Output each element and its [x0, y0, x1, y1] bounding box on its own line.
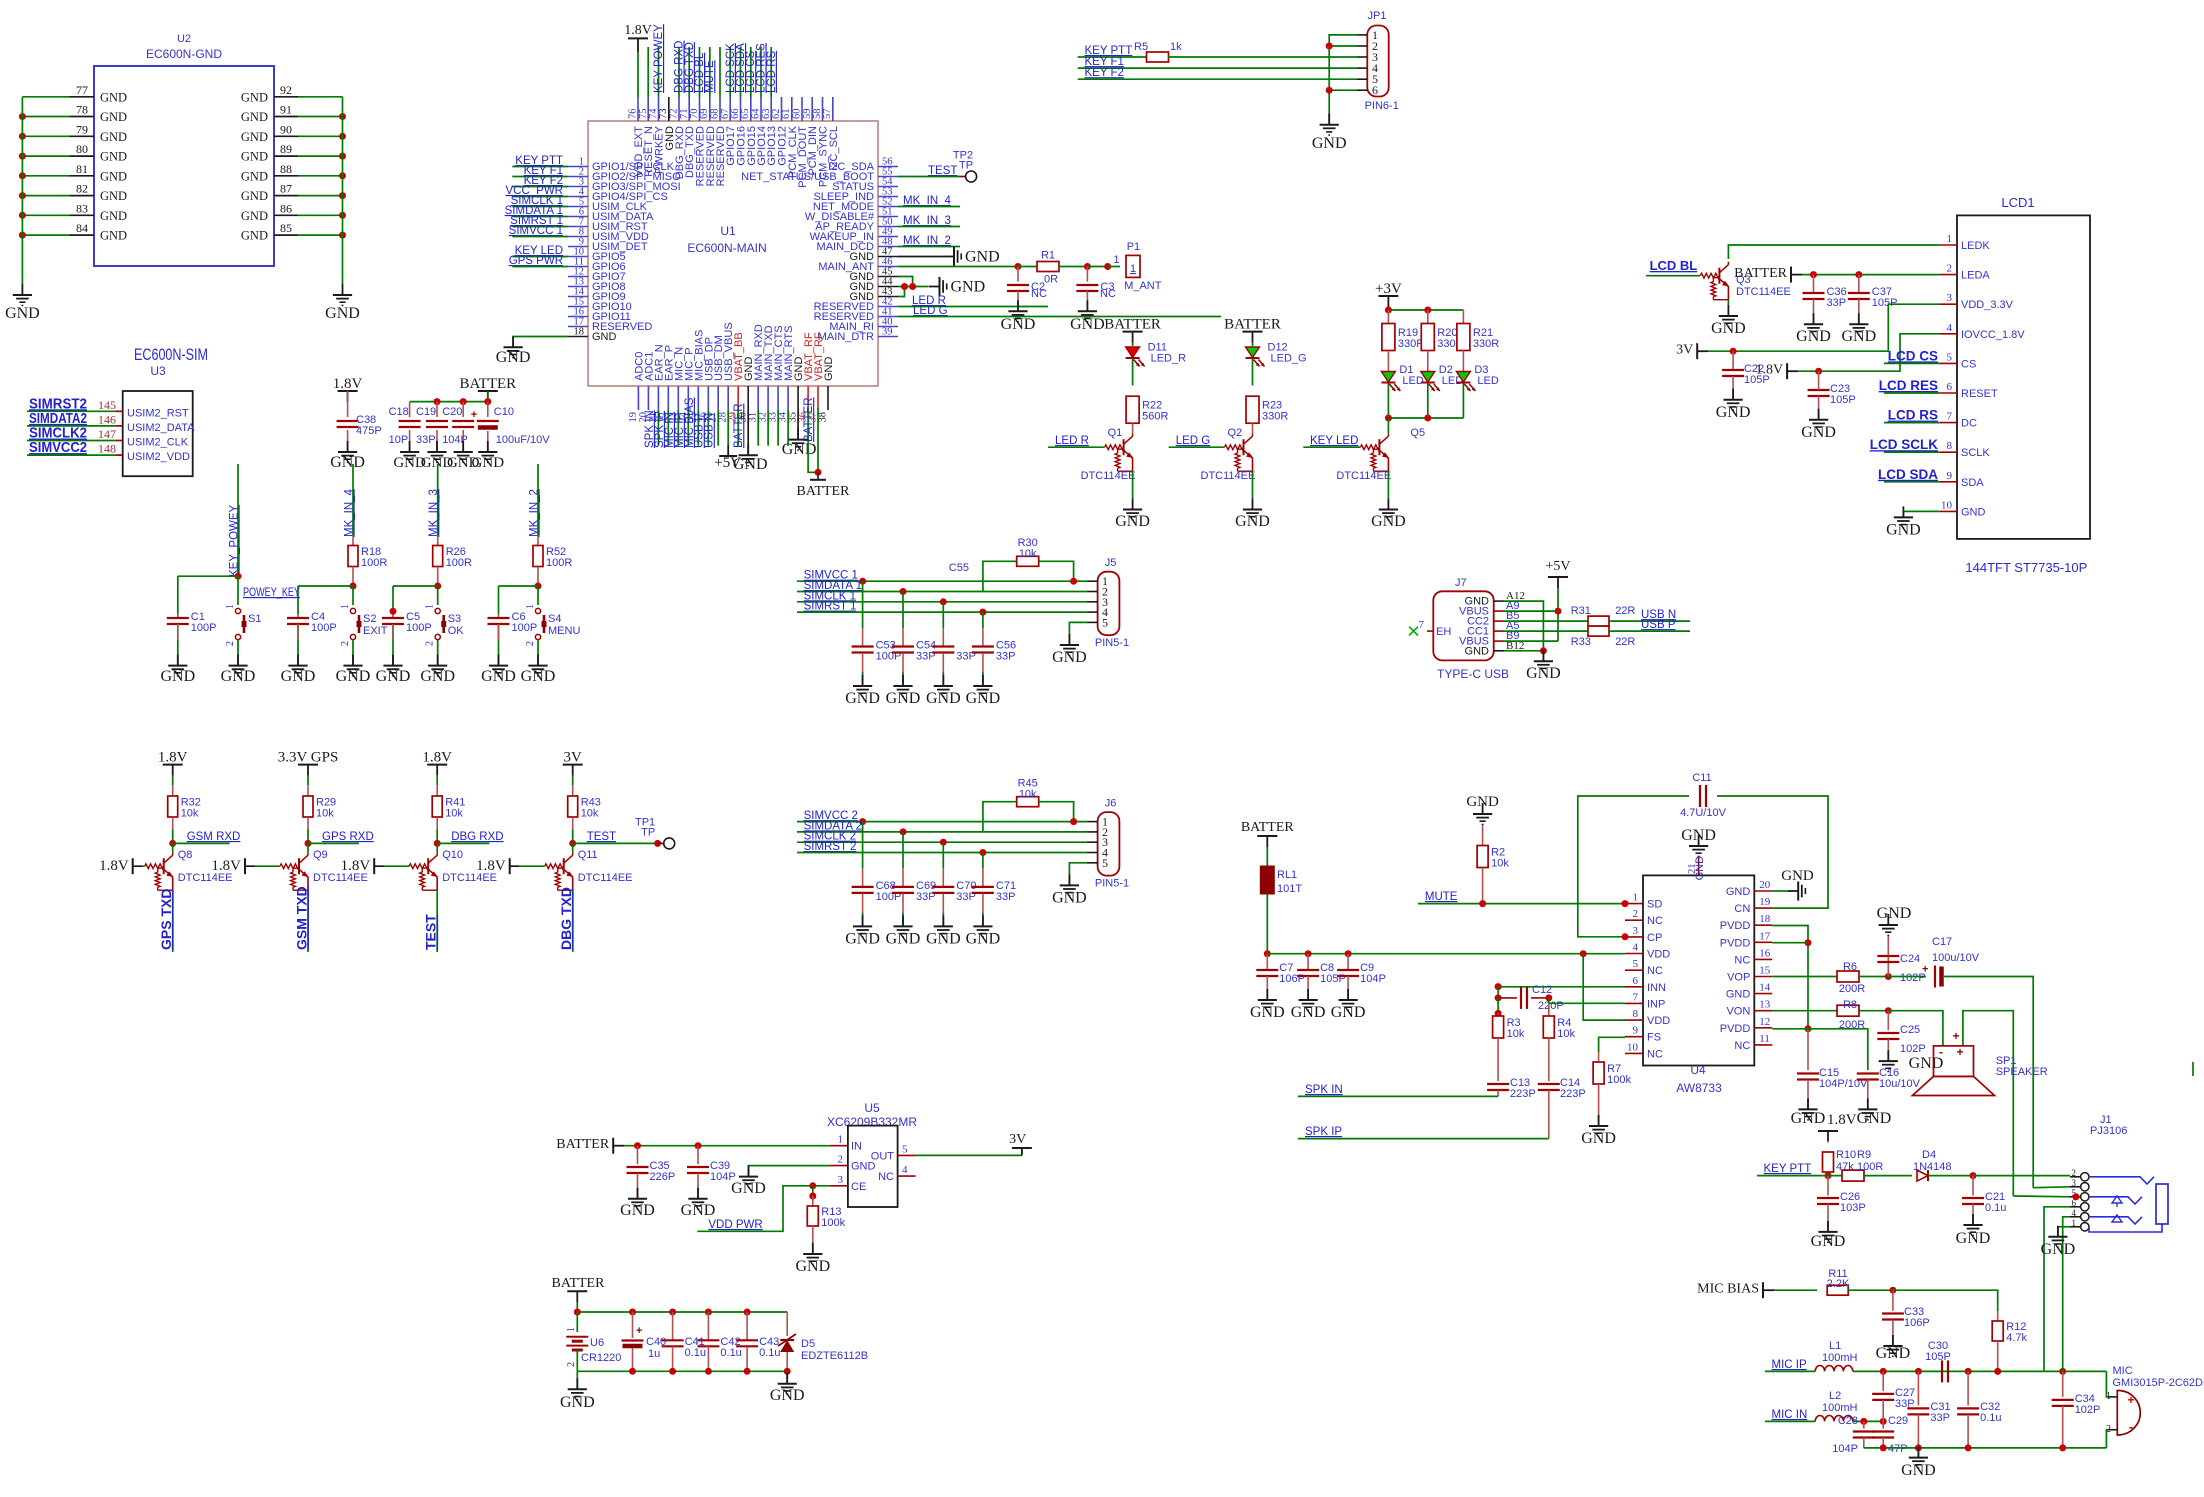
wire	[750, 47, 752, 97]
junction	[1880, 1368, 1887, 1375]
capacitor C13	[1487, 1077, 1536, 1100]
svg-text:C28: C28	[1838, 1415, 1858, 1427]
wire	[1548, 1038, 1550, 1081]
svg-text:LED G: LED G	[913, 305, 948, 317]
wire MK_IN_2	[898, 246, 960, 248]
svg-text:226P: 226P	[650, 1171, 676, 1183]
ground	[1331, 989, 1366, 1021]
ground	[478, 441, 497, 462]
U1 pin 14 GPIO9	[568, 287, 626, 304]
svg-text:100R: 100R	[1857, 1161, 1883, 1173]
ground	[926, 675, 961, 707]
wire	[298, 96, 342, 98]
U2 pin 84 GND	[69, 221, 127, 243]
wire	[392, 624, 394, 666]
wire	[982, 912, 984, 926]
svg-text:GND: GND	[241, 209, 268, 223]
svg-text:89: 89	[280, 142, 292, 156]
wire	[697, 1186, 830, 1232]
capacitor C26	[1817, 1191, 1866, 1214]
svg-text:33P: 33P	[1930, 1412, 1950, 1424]
junction	[2073, 1193, 2080, 1200]
svg-text:LED R: LED R	[1055, 435, 1089, 447]
svg-text:1.8V: 1.8V	[211, 858, 241, 874]
svg-text:GND: GND	[100, 209, 127, 223]
svg-text:LCD RS: LCD RS	[1888, 408, 1938, 423]
U1 pin 42 RESERVED	[814, 297, 898, 314]
wire	[1827, 1141, 1829, 1143]
svg-text:102P: 102P	[1900, 1043, 1926, 1055]
power 3V	[1676, 343, 1708, 360]
capacitor C38	[337, 414, 382, 437]
U1 pin 2 GPIO2/SPI_MISO	[568, 167, 681, 184]
wire	[384, 865, 409, 867]
svg-text:6: 6	[1947, 381, 1953, 393]
svg-text:9: 9	[1947, 470, 1953, 482]
junction	[859, 578, 866, 585]
capacitor C3	[1076, 281, 1114, 293]
capacitor None	[1521, 987, 1527, 1009]
wire	[1863, 1421, 1865, 1428]
wire	[658, 47, 660, 97]
ground	[1473, 803, 1492, 824]
wire	[298, 155, 342, 157]
svg-text:1.8V: 1.8V	[158, 750, 188, 766]
connector JP1 PIN6-1	[1365, 10, 1399, 112]
wire	[178, 575, 238, 577]
svg-text:RL1: RL1	[1277, 869, 1297, 881]
junction	[1424, 307, 1431, 314]
J6 pin 1	[1087, 815, 1108, 829]
U4 pin 1 SD	[1625, 892, 1662, 911]
wire	[22, 234, 69, 236]
wire	[1882, 1400, 1884, 1421]
svg-text:GND: GND	[845, 690, 880, 707]
wire	[1972, 1204, 1974, 1225]
junction	[1855, 271, 1862, 278]
wire BATTER	[624, 1145, 830, 1147]
resistor R4	[1543, 1016, 1575, 1040]
wire	[747, 410, 749, 455]
wire	[786, 1371, 788, 1384]
wire SIMVCC 1	[512, 236, 568, 238]
wire	[1132, 343, 1134, 346]
wire	[1039, 802, 1074, 822]
U1 pin 71 DBG_TXD	[679, 97, 696, 178]
svg-text:R10: R10	[1836, 1149, 1856, 1161]
wire	[1887, 1039, 1889, 1061]
wire	[1859, 976, 1888, 978]
svg-text:GND: GND	[1857, 1110, 1892, 1127]
svg-text:R6: R6	[1843, 961, 1857, 973]
U1 pin 43 GND	[850, 287, 898, 304]
svg-text:LED_G: LED_G	[1271, 353, 1307, 365]
junction	[235, 573, 242, 580]
junction	[1326, 87, 1333, 94]
svg-text:2: 2	[1947, 263, 1953, 275]
capacitor C21	[1962, 1191, 2006, 1214]
svg-text:147: 147	[98, 427, 116, 441]
power BATTER	[459, 376, 516, 402]
wire	[1266, 954, 1268, 970]
U5 pin 1 IN	[830, 1134, 862, 1153]
wire	[1168, 56, 1357, 58]
wire SIMDATA 1	[797, 591, 1087, 593]
wire	[898, 287, 905, 297]
svg-text:TEST: TEST	[423, 914, 439, 950]
U1 pin 6 USIM_DATA	[568, 207, 654, 224]
svg-text:8: 8	[1633, 1008, 1639, 1020]
svg-text:17: 17	[1759, 930, 1771, 942]
wire	[392, 586, 394, 614]
ground	[1052, 634, 1087, 666]
wire KEY F1	[512, 176, 568, 178]
junction	[1264, 950, 1271, 957]
U4 pin 21 GND	[1687, 856, 1706, 881]
wire	[942, 912, 944, 926]
junction	[1104, 263, 1111, 270]
junction	[815, 469, 822, 476]
svg-text:85: 85	[280, 221, 292, 235]
LED D12	[1246, 342, 1307, 367]
wire	[1462, 351, 1464, 372]
wire	[1997, 1311, 1999, 1321]
wire	[392, 624, 394, 640]
junction	[1805, 939, 1812, 946]
svg-text:CE: CE	[851, 1181, 866, 1193]
LCD1 pin 1 LEDK	[1940, 233, 1991, 252]
svg-text:R8: R8	[1843, 999, 1857, 1011]
junction	[1970, 1172, 1977, 1179]
svg-text:DBG RXD: DBG RXD	[451, 831, 503, 843]
junction	[1815, 368, 1822, 375]
wire	[862, 581, 864, 628]
svg-text:GND: GND	[330, 454, 365, 471]
svg-text:3V: 3V	[1676, 343, 1693, 358]
capacitor C1	[167, 611, 217, 634]
ground	[1716, 389, 1751, 421]
svg-text:BATTER: BATTER	[733, 403, 745, 448]
wire	[462, 430, 464, 452]
junction	[19, 172, 26, 179]
svg-text:C18: C18	[389, 406, 409, 418]
U1 pin 12 GPIO7	[568, 267, 626, 284]
capacitor C33	[1882, 1306, 1930, 1329]
svg-text:14: 14	[1759, 982, 1771, 994]
svg-text:GND: GND	[1711, 320, 1746, 337]
svg-text:-: -	[2129, 1419, 2133, 1434]
svg-text:R33: R33	[1571, 636, 1591, 648]
wire	[487, 402, 489, 417]
junction	[629, 1368, 636, 1375]
IC U2 EC600N-GND	[94, 33, 274, 266]
wire	[1808, 1029, 1868, 1070]
ground	[886, 675, 921, 707]
svg-text:U4: U4	[1690, 1063, 1706, 1077]
U1 pin 32 MAIN_TXD	[758, 325, 776, 422]
ground	[481, 655, 516, 685]
junction	[339, 232, 346, 239]
wire	[1059, 266, 1088, 268]
wire	[1548, 1003, 1550, 1016]
wire	[942, 672, 944, 686]
LED D3	[1456, 364, 1498, 391]
svg-text:22R: 22R	[1615, 605, 1635, 617]
svg-text:GND: GND	[325, 305, 360, 322]
svg-text:BATTER: BATTER	[1224, 317, 1281, 333]
ground	[1371, 499, 1406, 531]
wire MUTE	[1418, 903, 1625, 905]
wire KEY LED	[512, 256, 568, 258]
U1 pin 66 GPIO16	[730, 97, 748, 166]
U2 pin 89 GND	[241, 142, 298, 164]
svg-text:GND: GND	[1115, 513, 1150, 530]
test point TP1	[635, 816, 675, 849]
svg-text:J6: J6	[1105, 797, 1117, 809]
svg-text:LCD SDA: LCD SDA	[1878, 467, 1938, 482]
svg-text:GND: GND	[681, 1202, 716, 1219]
wire	[1818, 371, 1820, 390]
svg-text:POWEY_KEY: POWEY_KEY	[243, 587, 300, 599]
power 3.3V GPS	[278, 750, 339, 776]
wire LCD CS	[1884, 362, 1940, 364]
ground	[336, 655, 371, 685]
ground	[521, 655, 556, 685]
svg-text:GND: GND	[1877, 905, 1912, 922]
transistor Q1	[1081, 427, 1136, 482]
wire	[1827, 1204, 1829, 1232]
svg-text:LCD BL: LCD BL	[1650, 258, 1698, 273]
junction	[900, 828, 907, 835]
svg-text:12: 12	[1759, 1016, 1770, 1028]
capacitor C39	[687, 1160, 736, 1183]
svg-text:3: 3	[2072, 1178, 2077, 1188]
wire	[817, 408, 819, 472]
wire	[1086, 291, 1088, 311]
U1 pin 55 NET_STATUS/USB_BOOT	[741, 167, 898, 184]
wire	[1903, 511, 1939, 517]
svg-text:BATTER: BATTER	[459, 376, 516, 392]
wire	[942, 628, 944, 646]
svg-text:GND: GND	[241, 90, 268, 104]
svg-text:GND: GND	[1052, 889, 1087, 906]
power +3V	[1375, 281, 1402, 307]
wire	[22, 195, 69, 197]
wire	[1307, 954, 1309, 970]
resistor R45	[1017, 777, 1039, 806]
LCD1 pin 10 GND	[1940, 499, 1986, 518]
wire	[1387, 310, 1389, 323]
svg-text:47P: 47P	[1888, 1443, 1908, 1455]
svg-text:10k: 10k	[581, 808, 599, 820]
U4 pin 10 NC	[1625, 1041, 1663, 1060]
svg-text:EC600N-SIM: EC600N-SIM	[134, 345, 208, 364]
wire	[1252, 359, 1254, 385]
resistor R13	[807, 1206, 845, 1229]
svg-text:GND: GND	[420, 668, 455, 685]
wire	[1497, 1013, 1499, 1016]
J5 pin 1	[1087, 574, 1108, 588]
power 1.8V	[1818, 1131, 1838, 1141]
wire	[740, 47, 742, 97]
wire	[1329, 35, 1356, 125]
svg-text:100u/10V: 100u/10V	[1932, 952, 1980, 964]
wire	[647, 47, 649, 97]
svg-text:2: 2	[2072, 1168, 2077, 1178]
wire	[707, 1312, 709, 1340]
U1 pin 72 DBG_RXD	[669, 97, 687, 179]
wire	[487, 431, 489, 452]
wire	[298, 135, 342, 137]
junction	[339, 153, 346, 160]
wire SIMDATA 2	[797, 831, 1087, 833]
svg-text:1: 1	[425, 604, 436, 609]
svg-text:10P: 10P	[389, 434, 409, 446]
capacitor C30	[1925, 1340, 1951, 1382]
transistor Q9	[280, 849, 368, 890]
wire	[2106, 1430, 2108, 1448]
U4 pin 6 INN	[1625, 975, 1666, 994]
svg-text:LED_R: LED_R	[1151, 353, 1187, 365]
wire	[657, 410, 659, 446]
svg-text:GND: GND	[966, 930, 1001, 947]
junction	[900, 588, 907, 595]
wire	[898, 286, 928, 288]
ground	[620, 1188, 655, 1219]
U4 pin 5 NC	[1625, 958, 1663, 977]
ground	[221, 655, 256, 685]
capacitor C11	[1700, 785, 1706, 807]
junction	[19, 232, 26, 239]
svg-text:79: 79	[76, 122, 88, 136]
junction	[979, 849, 986, 856]
wire	[1504, 640, 1558, 642]
U4 pin 17 PVDD	[1720, 930, 1773, 949]
resistor R10	[1823, 1152, 1834, 1172]
svg-text:GND: GND	[241, 189, 268, 203]
U2 pin 78 GND	[69, 103, 127, 125]
svg-text:GND: GND	[966, 690, 1001, 707]
U1 pin 52 NET_MODE	[813, 197, 898, 214]
wire	[1387, 351, 1389, 372]
junction	[390, 608, 397, 615]
ground	[845, 675, 880, 707]
wire 1.8V	[1798, 334, 1940, 371]
wire	[797, 410, 799, 440]
J1 pin 5	[2070, 1188, 2089, 1201]
wire	[172, 785, 174, 796]
svg-text:DTC114EE: DTC114EE	[1736, 286, 1791, 298]
svg-text:3.3V GPS: 3.3V GPS	[278, 750, 339, 766]
junction	[940, 598, 947, 605]
U1 pin 4 GPIO4/SPI_CS	[568, 187, 668, 204]
svg-text:1: 1	[225, 604, 236, 609]
svg-text:223P: 223P	[1510, 1088, 1536, 1100]
wire LCD SDA	[1884, 481, 1940, 483]
capacitor C40	[622, 1312, 667, 1371]
wire	[298, 234, 342, 236]
wire	[637, 1146, 639, 1165]
svg-text:105P: 105P	[1830, 394, 1856, 406]
svg-text:GND: GND	[1681, 827, 1716, 844]
wire SIMRST2	[27, 410, 116, 412]
svg-text:SPK IP: SPK IP	[1305, 1126, 1342, 1138]
svg-text:GND: GND	[1901, 1462, 1936, 1479]
wire	[143, 865, 145, 867]
wire	[307, 785, 309, 796]
svg-text:M_ANT: M_ANT	[1124, 280, 1162, 292]
svg-text:GND: GND	[1841, 328, 1876, 345]
svg-text:GND: GND	[770, 1387, 805, 1404]
resistor R18	[348, 546, 387, 570]
U1 pin 22 EAR_P	[658, 345, 676, 423]
U1 pin 23 MIC_N	[668, 347, 686, 423]
wire	[297, 614, 299, 618]
power 1.8V	[422, 750, 452, 776]
svg-text:GND: GND	[2041, 1241, 2076, 1258]
svg-text:GND: GND	[1801, 424, 1836, 441]
power BATTER	[1104, 317, 1161, 343]
wire	[1252, 423, 1254, 433]
wire	[1864, 1175, 1912, 1177]
resistor R31	[1571, 605, 1636, 626]
svg-text:100P: 100P	[512, 622, 538, 634]
svg-text:18: 18	[1759, 913, 1771, 925]
svg-text:83: 83	[76, 201, 88, 215]
wire KEY PTT	[512, 166, 568, 168]
junction	[1385, 415, 1392, 422]
U1 pin 53 SLEEP_IND	[813, 187, 898, 204]
svg-text:100R: 100R	[546, 557, 572, 569]
U3 pin 147 USIM2_CLK	[98, 427, 189, 449]
wire	[719, 47, 721, 97]
svg-text:USB P: USB P	[1641, 619, 1676, 631]
svg-text:GND: GND	[782, 441, 817, 458]
wire	[1504, 601, 1543, 651]
svg-text:220P: 220P	[1538, 1000, 1564, 1012]
wire	[1813, 275, 1815, 293]
wire	[1772, 1028, 1808, 1030]
wire	[2063, 1217, 2070, 1372]
U1 pin 17 RESERVED	[568, 317, 652, 334]
ground	[1811, 1221, 1846, 1250]
svg-text:LCD1: LCD1	[2001, 195, 2034, 210]
wire	[177, 624, 179, 640]
U1 pin 45 GND	[850, 267, 898, 284]
svg-text:4.7U/10V: 4.7U/10V	[1680, 807, 1727, 819]
wire	[1882, 1371, 1884, 1391]
svg-text:144TFT ST7735-10P: 144TFT ST7735-10P	[1965, 560, 2087, 575]
capacitor C27	[1872, 1387, 1915, 1410]
svg-text:GND: GND	[886, 690, 921, 707]
wire DBG RXD	[437, 842, 489, 844]
capacitor C43	[736, 1336, 780, 1359]
U2 pin 81 GND	[69, 162, 127, 184]
capacitor C54	[892, 647, 914, 653]
capacitor C37	[1848, 286, 1898, 309]
svg-text:J5: J5	[1105, 557, 1117, 569]
wire	[942, 602, 944, 628]
svg-text:S3: S3	[448, 613, 461, 625]
resistor R12	[1992, 1321, 2027, 1344]
power BATTER	[1224, 317, 1281, 343]
J7 pin B9 VBUS	[1459, 630, 1519, 648]
U1 pin 74 PWRKEY	[648, 97, 666, 174]
wire	[983, 561, 1017, 591]
resistor R22	[1126, 396, 1168, 423]
junction	[434, 398, 441, 405]
JP1 pin 6	[1357, 83, 1378, 97]
